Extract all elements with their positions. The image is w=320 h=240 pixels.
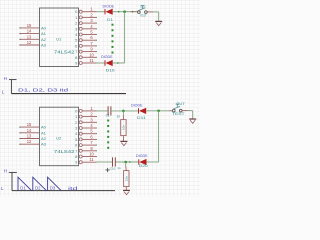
pin 10 (output 8) of U1 <box>79 56 82 59</box>
switch S1 TEST lever <box>138 8 146 11</box>
svg-text:13: 13 <box>27 134 32 139</box>
waveform pulse D2 <box>33 177 47 190</box>
svg-text:A0: A0 <box>41 125 47 130</box>
svg-text:H: H <box>4 168 7 173</box>
wire D10 anode to riser <box>113 62 125 64</box>
svg-text:A2: A2 <box>41 37 47 42</box>
svg-text:TEST: TEST <box>140 14 147 18</box>
pin 2 (output 1) of U1 <box>79 16 82 19</box>
svg-text:DIODE: DIODE <box>136 154 148 158</box>
svg-text:11: 11 <box>89 157 94 162</box>
svg-text:DIODE: DIODE <box>101 55 113 59</box>
svg-text:A0: A0 <box>41 25 47 30</box>
pin 5 (output 4) of U1 <box>79 33 82 36</box>
svg-text:1n: 1n <box>117 114 121 118</box>
pin 9 (output 7) of U2 <box>79 149 82 152</box>
pin 11 (output 9) of U1 <box>79 62 82 65</box>
svg-text:A2: A2 <box>41 136 47 141</box>
svg-text:OUT: OUT <box>140 4 146 8</box>
wire capacitor C1 to diode D11 <box>111 110 138 112</box>
ellipsis: repeated RC-diode stages <box>107 120 109 122</box>
svg-text:1n: 1n <box>117 166 121 170</box>
switch S1 TEST contact right <box>145 11 148 14</box>
svg-text:A1: A1 <box>41 130 47 135</box>
wire switch S1 to ground <box>147 11 153 13</box>
ellipsis: repeated diode stages <box>112 24 114 26</box>
pin 12 (input A3) of U2 <box>20 143 40 145</box>
capacitor C10 plates <box>112 157 114 166</box>
svg-text:TEST: TEST <box>172 112 185 116</box>
svg-text:10: 10 <box>89 52 94 57</box>
pin 6 (output 5) of U2 <box>79 138 82 141</box>
waveform pulse D3 <box>48 177 62 190</box>
diode D1 <box>104 9 106 14</box>
capacitor C1 plates <box>107 106 109 115</box>
ground GND2 <box>120 140 127 142</box>
waveform pulse D1 <box>18 177 32 190</box>
wire pin11 U2 to capacitor C10 <box>97 161 113 163</box>
svg-text:A3: A3 <box>41 142 47 147</box>
pin 15 (input A0) of U2 <box>20 126 40 128</box>
junction node top net <box>123 10 126 13</box>
svg-text:74LS42: 74LS42 <box>54 149 75 154</box>
riser net bottom block <box>158 111 160 162</box>
svg-text:D10: D10 <box>106 69 115 73</box>
resistor R1 body <box>121 120 126 136</box>
wire capacitor C10 to diode D20 <box>116 161 139 163</box>
junction node R1 tap <box>122 110 125 113</box>
svg-text:D2: D2 <box>35 186 41 191</box>
svg-text:D3: D3 <box>50 186 56 191</box>
svg-text:D1: D1 <box>20 186 26 191</box>
net end marker <box>118 11 120 13</box>
net end marker <box>132 11 134 13</box>
wire pin11 U1 to diode D10 <box>97 62 105 64</box>
polarity + of C10 <box>106 169 110 171</box>
pin 13 (input A2) of U2 <box>20 138 40 140</box>
pin 4 (output 3) of U2 <box>79 127 82 130</box>
pin 14 (input A1) of U1 <box>20 33 40 35</box>
svg-text:U2: U2 <box>56 136 62 141</box>
svg-text:15: 15 <box>27 122 32 127</box>
wire junction to resistor R10 <box>125 162 127 166</box>
net end marker <box>129 161 131 163</box>
pin 7 (output 6) of U1 <box>79 44 82 47</box>
svg-text:15: 15 <box>27 23 32 28</box>
svg-text:C1: C1 <box>106 113 110 117</box>
wire D1 anode to switch S1 <box>113 11 130 13</box>
pin 13 (input A2) of U1 <box>20 38 40 40</box>
pin 6 (output 5) of U1 <box>79 39 82 42</box>
switch S2 TEST contact right <box>180 109 183 112</box>
pin 3 (output 2) of U2 <box>79 121 82 124</box>
pin 1 (output 0) of U2 <box>79 109 82 112</box>
svg-text:14: 14 <box>27 128 32 133</box>
wire D20 anode to riser <box>147 161 159 163</box>
svg-text:D11: D11 <box>137 116 146 120</box>
svg-text:10k: 10k <box>125 176 129 181</box>
svg-text:itd: itd <box>68 186 79 191</box>
svg-text:D1, D2, D3 itd: D1, D2, D3 itd <box>18 87 69 92</box>
riser net to top row <box>124 12 126 63</box>
svg-text:D1: D1 <box>107 18 113 22</box>
ground GND4 <box>189 118 196 120</box>
junction node riser bottom <box>157 110 160 113</box>
svg-text:A3: A3 <box>41 43 47 48</box>
pin 3 (output 2) of U1 <box>79 22 82 25</box>
pin 7 (output 6) of U2 <box>79 144 82 147</box>
net end marker row10 <box>117 62 119 64</box>
svg-text:D20: D20 <box>139 164 148 168</box>
wire pin1 U2 to capacitor C1 <box>97 110 108 112</box>
wire pin1 U1 to diode D1 <box>97 11 105 13</box>
switch S2 TEST stem <box>176 104 178 107</box>
svg-text:12: 12 <box>27 139 32 144</box>
ground GND1 <box>155 20 162 22</box>
switch S1 TEST stem <box>141 6 143 9</box>
resistor R10 body <box>124 171 129 187</box>
switch S2 TEST contact left <box>173 109 176 112</box>
pin 9 (output 7) of U1 <box>79 50 82 53</box>
svg-text:11: 11 <box>89 58 94 63</box>
wire D11 anode to switch S2 <box>146 110 169 112</box>
pin 12 (input A3) of U1 <box>20 44 40 46</box>
junction node R10 tap <box>124 161 127 164</box>
wire switch S2 to ground <box>182 110 188 112</box>
wire R10 to ground <box>125 187 127 190</box>
pin 15 (input A0) of U1 <box>20 27 40 29</box>
svg-text:12: 12 <box>27 40 32 45</box>
svg-text:C10: C10 <box>110 166 116 170</box>
svg-text:OUT: OUT <box>176 102 185 106</box>
switch S2 TEST lever <box>173 106 181 109</box>
wire R1 to ground <box>122 136 124 141</box>
svg-text:H: H <box>4 76 7 81</box>
pin 14 (input A1) of U2 <box>20 132 40 134</box>
svg-text:14: 14 <box>27 29 32 34</box>
pin 1 (output 0) of U1 <box>79 10 82 13</box>
pin 11 (output 9) of U2 <box>79 161 82 164</box>
svg-text:DIODE: DIODE <box>103 4 115 8</box>
svg-text:U1: U1 <box>56 36 62 41</box>
IC U2 74LS42 <box>40 107 79 166</box>
IC U1 74LS42 <box>40 8 79 67</box>
pin 2 (output 1) of U2 <box>79 115 82 118</box>
switch S1 TEST contact left <box>138 11 141 14</box>
svg-text:A1: A1 <box>41 31 47 36</box>
svg-text:74LS42: 74LS42 <box>54 50 75 55</box>
pin 5 (output 4) of U2 <box>79 132 82 135</box>
svg-text:10k: 10k <box>122 125 126 130</box>
pin 10 (output 8) of U2 <box>79 155 82 158</box>
svg-text:DIODE: DIODE <box>131 103 143 107</box>
wire junction to resistor R1 <box>122 111 124 116</box>
pin 4 (output 3) of U1 <box>79 27 82 30</box>
svg-text:10: 10 <box>89 152 94 157</box>
diode D10 <box>104 60 106 65</box>
svg-text:13: 13 <box>27 34 32 39</box>
diode D20 <box>138 159 140 164</box>
ground GND3 <box>123 189 130 191</box>
diode D11 <box>138 108 140 113</box>
